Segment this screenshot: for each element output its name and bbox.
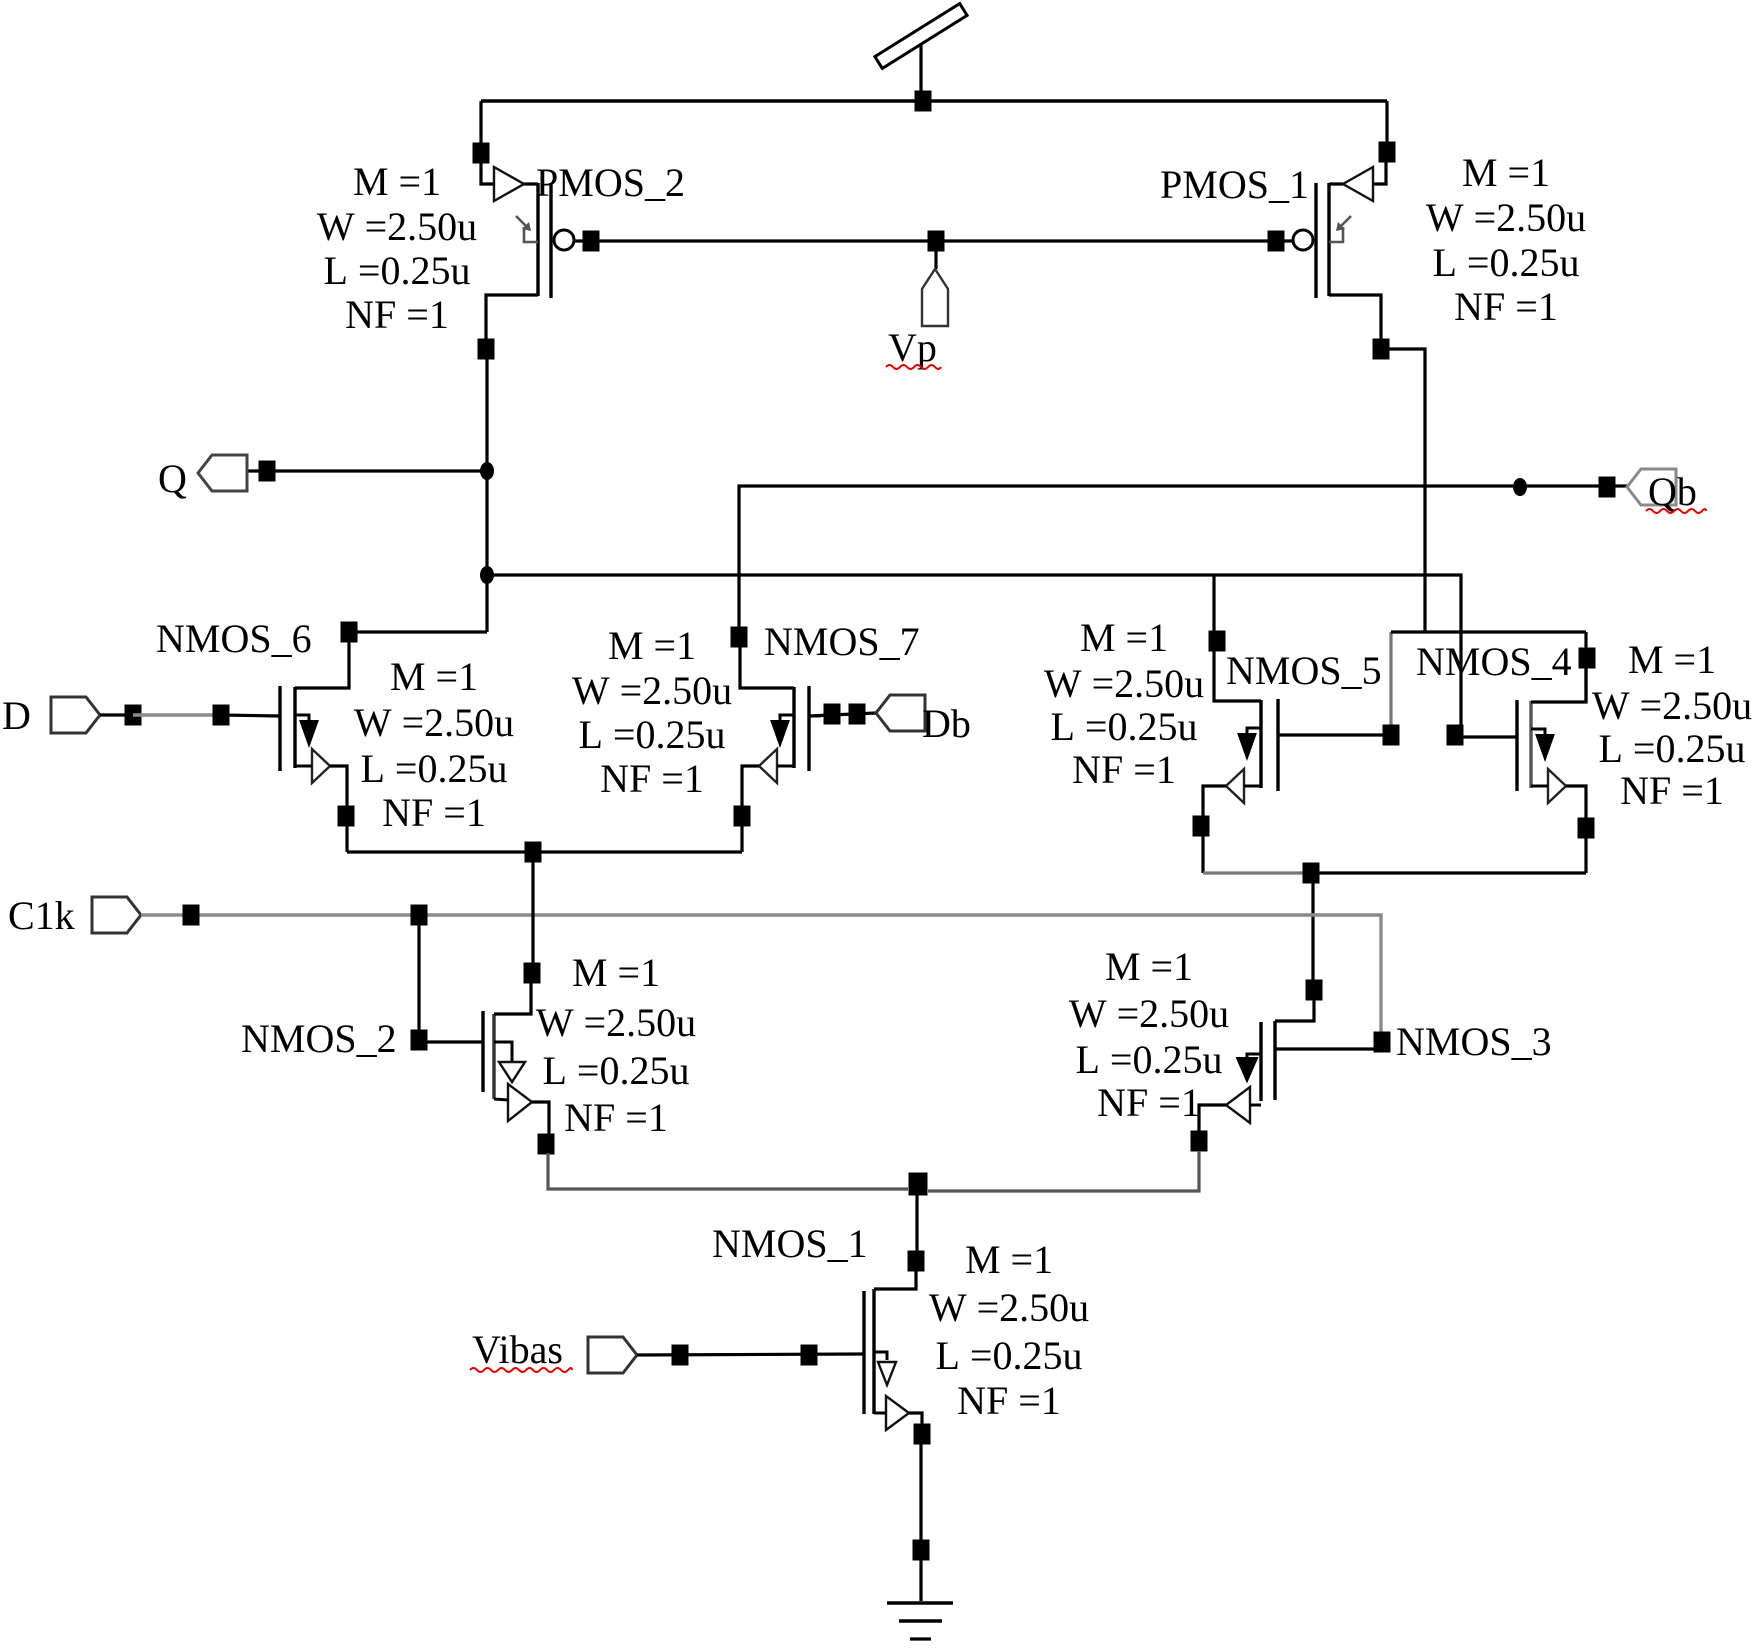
wire NMOS_5 drain to Q wire	[1212, 575, 1215, 632]
svg-text:NF =1: NF =1	[382, 790, 486, 835]
wire D segment	[133, 713, 221, 716]
svg-text:PMOS_2: PMOS_2	[536, 160, 685, 205]
svg-text:M =1: M =1	[965, 1237, 1053, 1282]
node Q junction dot	[480, 462, 494, 480]
transistor PMOS_2	[481, 163, 574, 340]
Q wire pin square	[259, 461, 276, 482]
wire D to NMOS_6 gate	[221, 715, 280, 716]
transistor NMOS_6	[268, 640, 349, 808]
wire sources to NMOS_2 drain	[531, 861, 534, 964]
svg-text:M =1: M =1	[1628, 637, 1716, 682]
ground bar 2	[899, 1619, 942, 1622]
NMOS_7 drain pin square	[731, 627, 748, 648]
svg-text:M =1: M =1	[1080, 615, 1168, 660]
svg-text:W =2.50u: W =2.50u	[572, 668, 732, 713]
svg-text:L =0.25u: L =0.25u	[543, 1048, 690, 1093]
NMOS_3 drain pin square	[1306, 980, 1323, 1001]
svg-text:PMOS_1: PMOS_1	[1160, 162, 1309, 207]
svg-text:M =1: M =1	[608, 623, 696, 668]
node Q lower junction dot	[480, 566, 494, 584]
wire PMOS_1 drain down	[1381, 349, 1425, 632]
svg-text:NMOS_4: NMOS_4	[1416, 639, 1572, 684]
tail junction square	[909, 1173, 928, 1196]
svg-text:M =1: M =1	[1462, 150, 1550, 195]
PMOS_1 gate pin square	[1268, 231, 1285, 252]
svg-text:L =0.25u: L =0.25u	[324, 248, 471, 293]
wire NMOS_5 source rail	[1203, 871, 1311, 874]
svg-text:NF =1: NF =1	[1072, 747, 1176, 792]
NMOS_4 source pin square	[1578, 818, 1595, 839]
wire NMOS_3 gate lead	[1276, 1047, 1382, 1050]
wire Qb from NMOS_7 drain to port	[739, 486, 1627, 632]
svg-text:M =1: M =1	[390, 654, 478, 699]
transistor NMOS_4	[1505, 650, 1586, 818]
wire NMOS_5 source down	[1201, 836, 1204, 873]
svg-text:NMOS_1: NMOS_1	[712, 1221, 868, 1266]
PMOS_2 source pin square	[473, 143, 490, 164]
transistor PMOS_1	[1293, 162, 1386, 340]
wire NMOS_6/7 sources	[347, 850, 742, 853]
svg-text:W =2.50u: W =2.50u	[1044, 661, 1204, 706]
svg-text:NMOS_2: NMOS_2	[241, 1016, 397, 1061]
svg-text:L =0.25u: L =0.25u	[1599, 726, 1746, 771]
svg-text:Vibas: Vibas	[472, 1327, 563, 1372]
wire NMOS_5 gate lead	[1278, 733, 1391, 736]
NMOS_5 source pin square	[1193, 816, 1210, 837]
PMOS_1 source pin square	[1379, 142, 1396, 163]
svg-text:Vp: Vp	[888, 325, 937, 370]
wire NMOS_4 source rail	[1311, 871, 1586, 874]
svg-text:NF =1: NF =1	[564, 1095, 668, 1140]
wire C1k to NMOS_2 gate	[417, 915, 420, 1031]
PMOS_2 drain pin square	[478, 339, 495, 360]
svg-text:L =0.25u: L =0.25u	[579, 712, 726, 757]
red squiggle under Vibas	[470, 1368, 572, 1372]
port Db	[876, 695, 925, 731]
svg-text:NMOS_7: NMOS_7	[764, 619, 920, 664]
source rail junction square	[1303, 863, 1320, 884]
Vibas pin square 2	[801, 1345, 818, 1366]
svg-text:L =0.25u: L =0.25u	[936, 1333, 1083, 1378]
NMOS_5 drain pin square	[1209, 631, 1226, 652]
NMOS_5 gate pin square	[1383, 725, 1400, 746]
port Vp	[922, 269, 948, 326]
wire PMOS gate rail	[574, 239, 1293, 242]
ground pin square	[913, 1540, 930, 1561]
svg-text:NMOS_5: NMOS_5	[1226, 648, 1382, 693]
wire NMOS_5 gate riser	[1389, 632, 1392, 735]
svg-text:D: D	[2, 693, 31, 738]
NMOS_2 source pin square	[538, 1134, 555, 1155]
svg-text:NF =1: NF =1	[1454, 284, 1558, 329]
wire PMOS_2 source drop	[479, 101, 482, 145]
transistor NMOS_1	[858, 1270, 922, 1430]
wire NMOS_4 source down	[1584, 838, 1587, 873]
PMOS_1 drain pin square	[1373, 339, 1390, 360]
C1k pin square	[183, 905, 200, 926]
wire NMOS_6 source down	[345, 825, 348, 852]
wire D port stub	[100, 713, 133, 716]
D pin square 1	[125, 705, 142, 726]
NMOS_1 drain pin square	[908, 1251, 925, 1272]
wire NMOS_7 gate to Db	[809, 713, 876, 716]
transistor NMOS_7	[740, 647, 821, 808]
port C1k	[92, 897, 141, 933]
vdd rail junction square	[915, 91, 932, 112]
wire down to NMOS_3 drain	[1311, 873, 1314, 981]
svg-text:W =2.50u: W =2.50u	[929, 1285, 1089, 1330]
Vp tap square	[928, 231, 945, 252]
svg-text:NF =1: NF =1	[600, 756, 704, 801]
transistor NMOS_5	[1203, 650, 1290, 818]
svg-text:NMOS_6: NMOS_6	[156, 616, 312, 661]
svg-text:NF =1: NF =1	[1097, 1080, 1201, 1125]
NMOS_3 gate pin square	[1374, 1032, 1391, 1053]
NMOS_1 source pin square	[914, 1424, 931, 1445]
transistor NMOS_2	[483, 982, 549, 1134]
svg-text:W =2.50u: W =2.50u	[1592, 683, 1752, 728]
Db pin square 2	[849, 704, 866, 725]
port Vibas	[588, 1337, 637, 1373]
wire PMOS_1 source drop	[1385, 101, 1388, 145]
port Q	[198, 455, 247, 491]
wire to NMOS_1 drain	[915, 1190, 918, 1252]
port D	[51, 697, 100, 733]
port Qb	[1627, 469, 1676, 505]
svg-text:W =2.50u: W =2.50u	[317, 204, 477, 249]
svg-text:NF =1: NF =1	[957, 1378, 1061, 1423]
red squiggle under Vp	[886, 365, 941, 369]
svg-text:Q: Q	[158, 456, 187, 501]
wire NMOS_4 gate lead	[1458, 735, 1517, 738]
Vp port stem	[934, 251, 937, 269]
svg-text:L =0.25u: L =0.25u	[1433, 240, 1580, 285]
NMOS_7 source pin square	[734, 806, 751, 827]
vdd supply symbol	[875, 4, 967, 69]
PMOS_2 gate pin square	[583, 231, 600, 252]
source junction square	[525, 842, 542, 863]
svg-text:NF =1: NF =1	[1620, 768, 1724, 813]
NMOS_2 drain pin square	[524, 963, 541, 984]
NMOS_6 drain pin square	[341, 622, 358, 643]
NMOS_4 drain pin square	[1579, 648, 1596, 669]
Qb junction dot	[1513, 478, 1527, 496]
ground bar 3	[910, 1637, 931, 1640]
svg-text:W =2.50u: W =2.50u	[1069, 991, 1229, 1036]
svg-text:L =0.25u: L =0.25u	[1076, 1037, 1223, 1082]
wire NMOS_2 gate lead	[419, 1040, 483, 1043]
wire PMOS_2 drain to Q node	[485, 359, 488, 632]
svg-text:Qb: Qb	[1648, 469, 1697, 514]
ground bar 1	[887, 1601, 953, 1605]
vdd rail wire	[481, 99, 1387, 103]
svg-text:C1k: C1k	[8, 893, 75, 938]
svg-text:M =1: M =1	[353, 159, 441, 204]
Db pin square 1	[824, 704, 841, 725]
svg-text:W =2.50u: W =2.50u	[536, 1000, 696, 1045]
svg-text:NF =1: NF =1	[345, 292, 449, 337]
wire Q port to node	[244, 469, 487, 472]
wire NMOS_3 source	[928, 1151, 1199, 1191]
svg-text:NMOS_3: NMOS_3	[1396, 1019, 1552, 1064]
vdd stem	[919, 45, 922, 95]
NMOS_6 source pin square	[338, 806, 355, 827]
svg-text:L =0.25u: L =0.25u	[361, 746, 508, 791]
wire NMOS_1 source to ground	[919, 1444, 922, 1601]
wire NMOS_6 drain to Q node	[349, 630, 487, 633]
wire Qb node horizontal	[1391, 630, 1586, 633]
transistor NMOS_3	[1199, 999, 1314, 1132]
NMOS_2 gate pin square	[411, 1030, 428, 1051]
svg-text:M =1: M =1	[1105, 944, 1193, 989]
wire NMOS_7 source down	[740, 825, 743, 852]
svg-text:W =2.50u: W =2.50u	[354, 700, 514, 745]
svg-text:Db: Db	[922, 701, 971, 746]
wire C1k	[141, 915, 1381, 1042]
red squiggle under Qb	[1646, 509, 1706, 513]
Qb wire pin square	[1599, 477, 1616, 498]
wire Q to NMOS_4 gate	[487, 575, 1461, 735]
C1k branch square	[411, 905, 428, 926]
svg-text:W =2.50u: W =2.50u	[1426, 195, 1586, 240]
NMOS_3 source pin square	[1191, 1131, 1208, 1152]
svg-text:L =0.25u: L =0.25u	[1051, 704, 1198, 749]
D pin square 2	[213, 705, 230, 726]
wire Vibas to NMOS_1 gate	[637, 1354, 864, 1355]
wire to NMOS_4 drain	[1584, 632, 1587, 649]
wire NMOS_4 drain	[1584, 667, 1587, 702]
wire NMOS_2 source	[548, 1153, 908, 1189]
svg-text:M =1: M =1	[572, 950, 660, 995]
NMOS_4 gate pin square	[1447, 725, 1464, 746]
Vibas pin square 1	[672, 1345, 689, 1366]
